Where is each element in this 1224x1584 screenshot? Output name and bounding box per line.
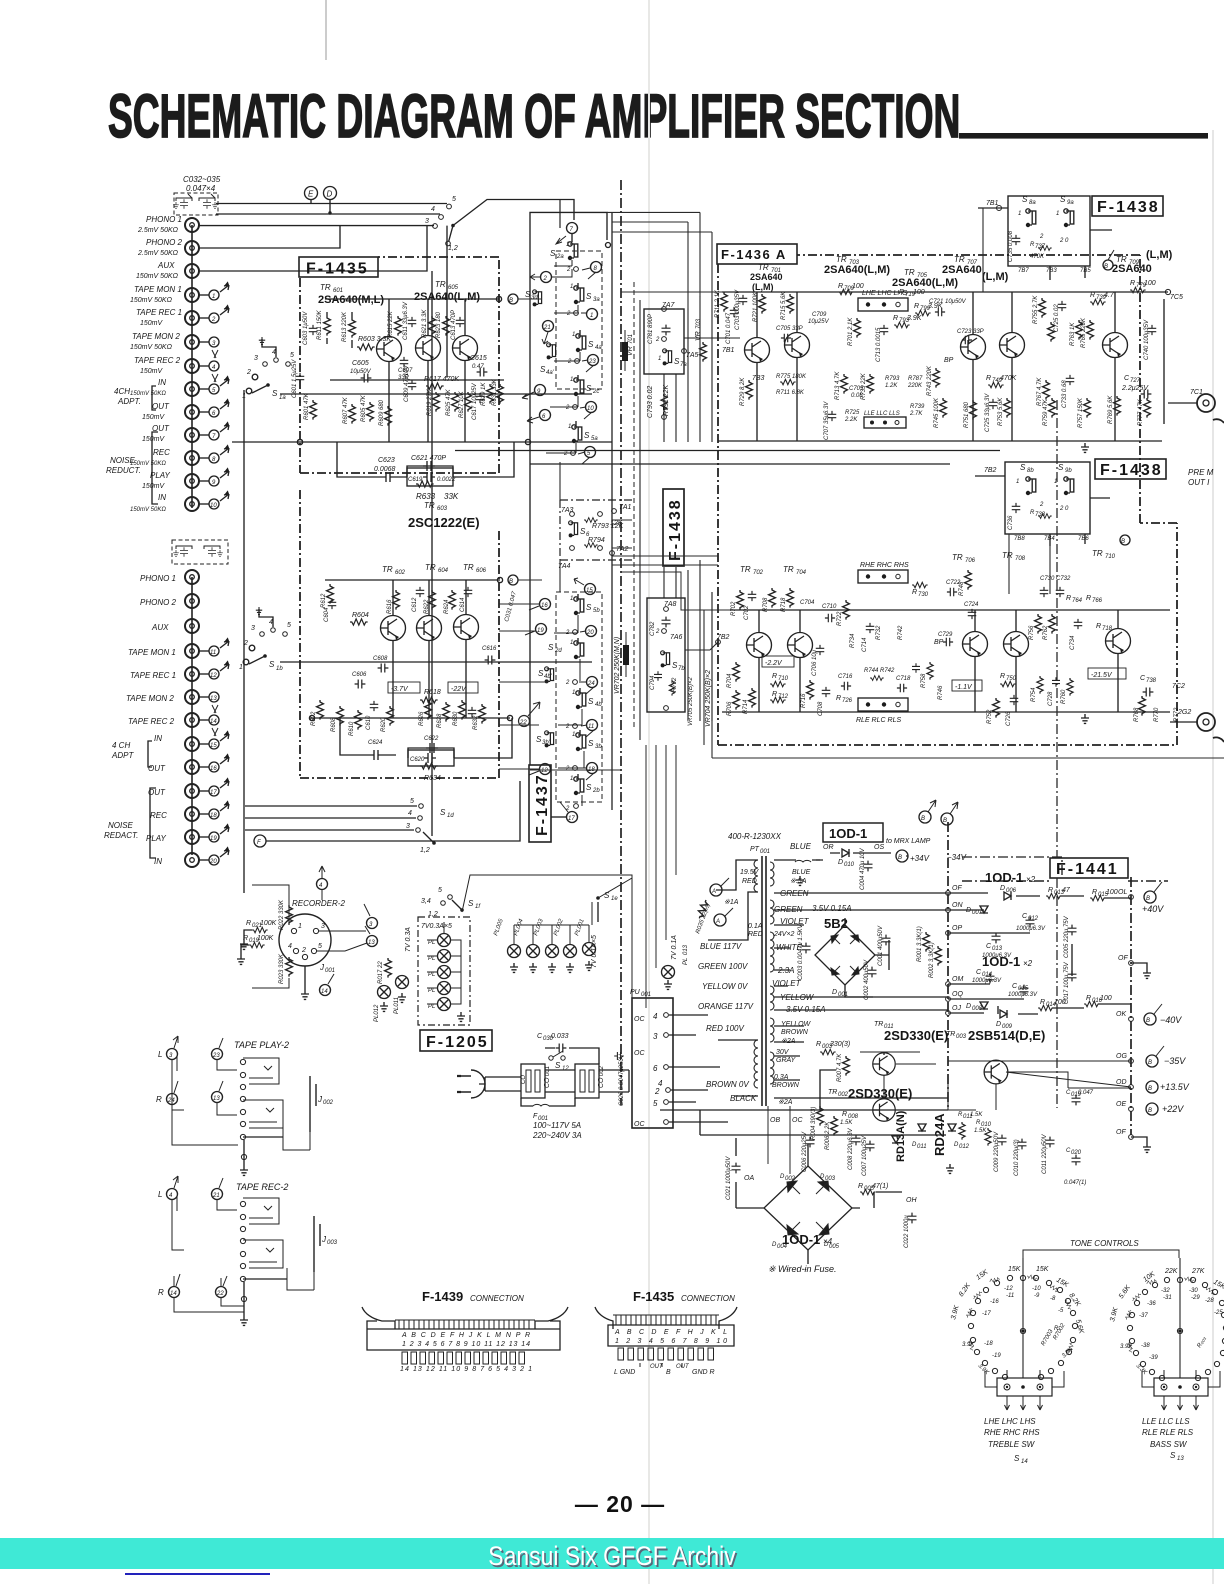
svg-text:4.7: 4.7 [1104,292,1115,299]
resistor R701 [854,318,861,338]
svg-text:470K: 470K [1030,254,1045,260]
svg-text:REC: REC [153,448,170,457]
B7 terminal [1146,1081,1158,1093]
svg-text:3d': 3d' [531,295,540,301]
comb teeth top [399,1320,529,1329]
svg-text:1OD-1: 1OD-1 [985,870,1023,885]
svg-text:12: 12 [210,673,217,679]
svg-text:150mV 50KΩ: 150mV 50KΩ [130,507,166,513]
wire lower main bus y758 [712,757,1224,759]
switch S4a [579,330,581,335]
svg-text:470K: 470K [1000,375,1017,382]
svg-text:PL004: PL004 [513,918,525,937]
svg-text:1: 1 [1018,211,1021,217]
B6 terminal [1146,1055,1158,1067]
secondary winding 2 [770,900,774,924]
block border [1005,462,1090,534]
wire lamp feed [597,902,599,922]
svg-text:5: 5 [318,943,322,950]
svg-text:19.5V: 19.5V [740,869,760,876]
resistor R709 [838,289,854,294]
svg-text:TAPE REC 1: TAPE REC 1 [130,671,176,680]
svg-text:TONE CONTROLS: TONE CONTROLS [1070,1239,1139,1248]
svg-text:7: 7 [570,227,574,233]
svg-text:PL011: PL011 [394,997,400,1014]
svg-text:C022 1000μ: C022 1000μ [904,1215,910,1248]
svg-text:OK: OK [1116,1011,1126,1018]
svg-text:※1A: ※1A [724,898,739,906]
resistor R616 [393,590,400,610]
diode D010 [842,849,849,857]
svg-text:2: 2 [654,1087,660,1096]
terminal 21 [212,1189,223,1200]
svg-text:9b: 9b [1065,468,1072,474]
svg-text:2SD330(E): 2SD330(E) [848,1086,912,1101]
transistor TR003 [984,1060,1008,1084]
jack AUX [185,264,199,278]
svg-text:PL002: PL002 [553,918,565,937]
cap C782 [662,617,671,628]
svg-text:764: 764 [1072,598,1083,604]
bias box -3.7V [388,682,420,693]
svg-text:-11: -11 [1006,1293,1014,1299]
jack chain vertical wire [191,225,193,508]
svg-text:R793 12K: R793 12K [592,523,623,530]
cap C020 [1072,1155,1081,1166]
resistor R002 [935,946,942,966]
svg-text:C003 0.0047μ 1.5KV: C003 0.0047μ 1.5KV [798,923,804,980]
S1a pole [252,374,258,380]
svg-text:REDACT.: REDACT. [104,831,138,840]
svg-text:2: 2 [563,451,568,457]
resistor R615 [395,316,402,336]
svg-text:R765 220K: R765 220K [1081,317,1087,348]
jack shells [243,1058,279,1084]
transistor TR703 [785,333,810,358]
svg-text:6: 6 [542,414,546,420]
gnd near transformer top [796,876,804,885]
svg-text:BLUE: BLUE [792,869,811,876]
svg-text:R608: R608 [331,717,337,732]
transistor TR709 [1103,333,1128,358]
DIN pins [291,928,318,959]
cap C610 [370,701,379,711]
svg-text:R701 2.1K: R701 2.1K [848,317,854,346]
svg-text:0.047×4: 0.047×4 [186,184,216,193]
wire TR tops [389,299,465,337]
svg-text:3b': 3b' [542,740,551,746]
board dash-dot y881 [962,880,1168,882]
svg-text:220K: 220K [907,383,923,389]
resistor R765 [1087,320,1094,340]
svg-text:S: S [1060,195,1066,204]
jack NR REC (lower) [185,807,199,821]
treble box wires up [985,1370,1064,1387]
svg-text:OP: OP [952,925,962,932]
svg-text:0.0022: 0.0022 [437,477,456,483]
svg-text:5a: 5a [591,436,598,442]
svg-text:24V×2: 24V×2 [773,931,795,938]
svg-text:150mV: 150mV [140,368,164,375]
svg-text:R759 47K: R759 47K [1043,398,1049,426]
A2 terminal [714,914,726,926]
svg-text:F-1438: F-1438 [1100,462,1163,479]
svg-text:1: 1 [242,393,246,400]
cap C721 [935,308,945,317]
svg-text:R745 100K: R745 100K [934,397,940,428]
svg-text:R770: R770 [1154,707,1160,722]
node D [324,187,337,200]
svg-text:150mV: 150mV [142,414,166,421]
svg-text:PHONO 1: PHONO 1 [140,574,176,583]
svg-text:2: 2 [655,337,660,343]
svg-text:19: 19 [210,836,217,842]
bracket [1023,1250,1179,1258]
svg-text:OA: OA [744,1175,754,1182]
cap C738 [1143,688,1154,697]
svg-text:17: 17 [210,790,217,796]
plug [461,1070,485,1098]
terminal 9 [535,385,546,396]
svg-text:4CH: 4CH [114,387,130,396]
svg-text:3: 3 [254,355,258,362]
svg-text:R702: R702 [731,601,737,616]
svg-text:S: S [588,739,594,748]
svg-text:TR: TR [836,255,847,264]
svg-text:OJ: OJ [952,1005,961,1012]
resistor R624 [449,590,456,610]
svg-text:R: R [1130,280,1135,287]
svg-text:×2: ×2 [1026,875,1036,884]
svg-text:OUT: OUT [650,1364,664,1370]
svg-text:7A6: 7A6 [670,634,683,641]
wire vert x712 [711,592,713,758]
cap C017 [1068,971,1077,982]
svg-text:3.9K: 3.9K [1120,1344,1133,1350]
svg-text:+22V: +22V [1162,1104,1184,1114]
svg-text:R620: R620 [381,717,387,732]
svg-text:R: R [816,1041,821,1048]
svg-text:C721 10μ50V: C721 10μ50V [929,299,967,305]
rotated F-1438 label box [663,489,684,566]
bass pot ring [1127,1277,1224,1380]
terminal 12 [540,764,551,775]
svg-text:F-1435: F-1435 [633,1289,674,1304]
switch S4b' [545,667,554,684]
svg-text:BROWN: BROWN [781,1029,809,1036]
cap C621 [423,461,435,471]
terminal 22 [519,716,530,727]
resistor R017 22 [385,958,392,978]
svg-text:2: 2 [543,276,548,282]
svg-text:4 CH: 4 CH [112,741,130,750]
resistor R793 [584,518,598,523]
bass terminal box [1154,1378,1208,1396]
svg-text:21: 21 [212,1193,220,1199]
svg-text:R610: R610 [349,721,355,736]
cap C703 [739,295,748,305]
svg-text:OC: OC [634,1050,645,1057]
svg-text:100K: 100K [257,935,274,942]
cap C714 [866,623,875,633]
treble pot center [1021,1329,1025,1333]
svg-text:-31: -31 [1163,1295,1172,1301]
transistor TR708 [1004,632,1029,657]
svg-text:27K: 27K [1191,1268,1205,1275]
power wires [948,893,1131,1014]
svg-text:21: 21 [543,325,551,331]
svg-text:1.5K: 1.5K [970,1112,983,1118]
wire stubs top mid [607,212,712,308]
svg-text:TR: TR [904,268,915,277]
transistor TR603 [416,336,441,361]
svg-text:726: 726 [842,698,853,704]
switch S3b [579,730,581,735]
wire cross y556 [612,556,718,565]
svg-text:S: S [548,643,554,652]
svg-text:1000μ6.3V: 1000μ6.3V [1008,992,1038,998]
svg-text:1: 1 [572,732,575,738]
svg-text:7V 0.3A: 7V 0.3A [405,927,412,952]
svg-text:R: R [1000,673,1005,680]
page right edge crease [1212,130,1214,1584]
cap C604 [328,599,337,609]
svg-text:150mV: 150mV [142,483,166,490]
svg-text:5.6K: 5.6K [1118,1284,1132,1300]
wires DIN to terminals [317,931,367,951]
svg-text:001: 001 [545,1066,551,1076]
svg-text:IN: IN [154,857,162,866]
svg-text:002: 002 [323,1100,334,1106]
svg-text:766: 766 [1092,598,1103,604]
bridge wires [736,1138,902,1264]
svg-text:TR: TR [740,565,751,574]
svg-text:7B7: 7B7 [1018,268,1029,274]
svg-text:+13.5V: +13.5V [1160,1082,1190,1092]
svg-text:OF: OF [952,885,962,892]
cap C005 [1068,925,1077,936]
svg-text:1b: 1b [276,666,283,672]
secondary winding 6 [770,1052,774,1084]
bass ring resistors [1125,1276,1216,1353]
resistor R737 [1038,246,1052,251]
resistor R601 [310,400,317,420]
svg-text:F-1436 A: F-1436 A [721,247,787,262]
svg-text:R751 680: R751 680 [964,401,970,428]
wire -34V dashdot [942,857,1062,877]
terminal 16 [540,599,551,610]
svg-text:IN: IN [154,734,162,743]
svg-text:R603 3.3K: R603 3.3K [358,336,391,343]
svg-text:GRAY: GRAY [776,1057,797,1064]
svg-text:TR: TR [1002,551,1013,560]
svg-text:7B1: 7B1 [722,347,735,354]
svg-text:R739: R739 [910,404,925,410]
wire S2a loop top [530,212,607,278]
svg-text:1: 1 [568,424,571,430]
svg-text:3: 3 [425,218,429,225]
svg-text:R754: R754 [1031,687,1037,702]
bus y1110 [660,1109,948,1111]
svg-text:C781 890P: C781 890P [648,314,654,344]
svg-text:PRE M: PRE M [1188,468,1214,477]
svg-text:B: B [1148,1086,1152,1092]
svg-text:S: S [269,660,275,669]
wires PU001 to transformer [669,1015,728,1122]
svg-text:15K: 15K [1036,1266,1049,1273]
resistor R608 [337,706,344,726]
resistor R001 [923,932,930,952]
contact column rec [240,1201,246,1301]
svg-text:RHE RHC RHS: RHE RHC RHS [984,1428,1040,1437]
svg-text:47(1): 47(1) [872,1183,888,1190]
svg-text:7C5: 7C5 [1170,294,1183,301]
svg-text:2 0: 2 0 [1059,506,1069,512]
svg-text:OH: OH [906,1197,917,1204]
svg-text:S: S [1058,463,1064,472]
resistor R607 [349,404,356,424]
cap C725b [989,399,998,409]
mid verticals [640,296,712,740]
terminal 2 [199,317,209,319]
svg-text:C733 0.68: C733 0.68 [1062,380,1068,408]
svg-text:R: R [1048,887,1053,894]
A1 terminal [710,884,722,896]
svg-text:100~117V 5A: 100~117V 5A [533,1121,581,1130]
jack TAPE REC 2 [185,359,199,373]
svg-text:C021 1000μ50V: C021 1000μ50V [726,1156,732,1200]
svg-text:2: 2 [1039,234,1044,240]
svg-text:704: 704 [796,570,807,576]
svg-text:2SA640(M,L): 2SA640(M,L) [318,294,384,306]
F-1436 A label box [717,244,797,264]
wire TR collector drops [389,360,465,442]
svg-text:R763 1K: R763 1K [1070,322,1076,346]
svg-text:330(3): 330(3) [830,1041,850,1048]
svg-text:R613 220K: R613 220K [342,311,348,342]
svg-text:A B C D E F H J K L: A B C D E F H J K L [614,1329,727,1336]
svg-text:R609 680: R609 680 [379,399,385,426]
svg-text:R746: R746 [938,685,944,700]
S1a contacts 3 4 5 [263,358,291,367]
page fold crease left [325,0,327,60]
svg-text:D: D [327,190,333,199]
resistor R617 [426,383,444,389]
selector lever S... [451,224,455,228]
separator dash-dot x948 [947,822,949,1110]
svg-text:C706 10μ: C706 10μ [812,649,818,676]
svg-text:19: 19 [537,628,544,634]
wire aux right run [199,226,427,271]
svg-text:AUX: AUX [157,261,175,270]
wire TR drops lower right [759,610,1118,712]
svg-text:0.033: 0.033 [551,1033,569,1040]
transistor TR707 [1000,333,1025,358]
svg-text:007: 007 [972,910,983,916]
svg-text:(L,M): (L,M) [752,282,774,292]
diode D011 [918,1124,926,1131]
svg-text:2: 2 [565,405,570,411]
wire y770 [530,769,620,771]
F-1435 label box [299,257,378,277]
svg-text:11: 11 [210,650,216,656]
svg-text:CONNECTION: CONNECTION [681,1294,735,1303]
svg-text:718: 718 [1102,626,1113,632]
cap C707 [828,411,837,421]
board border dash-dot [300,257,499,473]
svg-text:OUT I: OUT I [1188,478,1210,487]
svg-text:BASS SW: BASS SW [1150,1440,1188,1449]
cap C617 [476,393,485,403]
wire 7A5 to 7B1 [684,337,740,339]
svg-text:RECORDER-2: RECORDER-2 [292,899,345,908]
vertical returns right x1009 [1008,534,1010,594]
VR701 pot [622,342,628,361]
svg-text:C725 0.02: C725 0.02 [1054,304,1060,332]
resistor R767 [1043,380,1050,400]
lower row top rail [730,609,1170,611]
svg-text:10K: 10K [1142,1271,1156,1284]
svg-text:150mV 50KΩ: 150mV 50KΩ [130,297,173,304]
svg-text:C729: C729 [938,632,953,638]
resistor R712 [770,697,786,702]
resistor R777 [1144,398,1151,418]
wires into block [978,208,1112,280]
resistor R793b [894,322,910,327]
S1b switch [249,645,255,651]
resistor R634 [420,763,438,769]
wire run 3 [245,829,414,831]
cap C022 [908,1213,917,1224]
svg-text:4a: 4a [595,345,602,351]
bus y1135 [700,1134,946,1136]
svg-text:C606: C606 [352,672,367,678]
bottom blue line [125,1573,270,1575]
bridge2 diodes [787,1181,829,1235]
wire TR drops lower [393,580,466,718]
F-1441 label box [1050,858,1128,878]
wire F to S1d [266,781,520,843]
svg-text:R: R [246,920,251,927]
wire primary top leads [708,860,758,940]
svg-text:OUT: OUT [152,402,170,411]
svg-text:A: A [715,919,720,925]
svg-text:LHE LHC LHS: LHE LHC LHS [984,1417,1036,1426]
svg-text:B: B [509,579,513,585]
svg-text:602: 602 [395,570,406,576]
long dash-dot x621 [620,180,622,1105]
resistor R752 [993,698,1000,718]
resistor R016 100 [1084,1001,1100,1006]
resistor R022 330K [286,905,293,925]
svg-text:S: S [586,384,592,393]
resistor R006 [831,1116,838,1136]
svg-text:PHONO 1: PHONO 1 [146,215,182,224]
lamp PL006 [438,998,451,1011]
svg-text:002: 002 [785,1176,796,1182]
svg-text:R625 47K: R625 47K [446,388,452,416]
svg-text:C615: C615 [470,355,487,362]
resistor R775 [780,379,796,384]
svg-text:2SC1222(E): 2SC1222(E) [408,515,480,530]
svg-text:D: D [1000,885,1005,892]
svg-text:1,2: 1,2 [448,245,458,252]
terminal 5 [199,388,209,390]
svg-text:R769 5.6K: R769 5.6K [1108,395,1114,424]
svg-text:R623 180: R623 180 [436,311,442,338]
wire run 5 [245,805,417,807]
svg-text:2.5mV 50KΩ: 2.5mV 50KΩ [137,250,179,257]
